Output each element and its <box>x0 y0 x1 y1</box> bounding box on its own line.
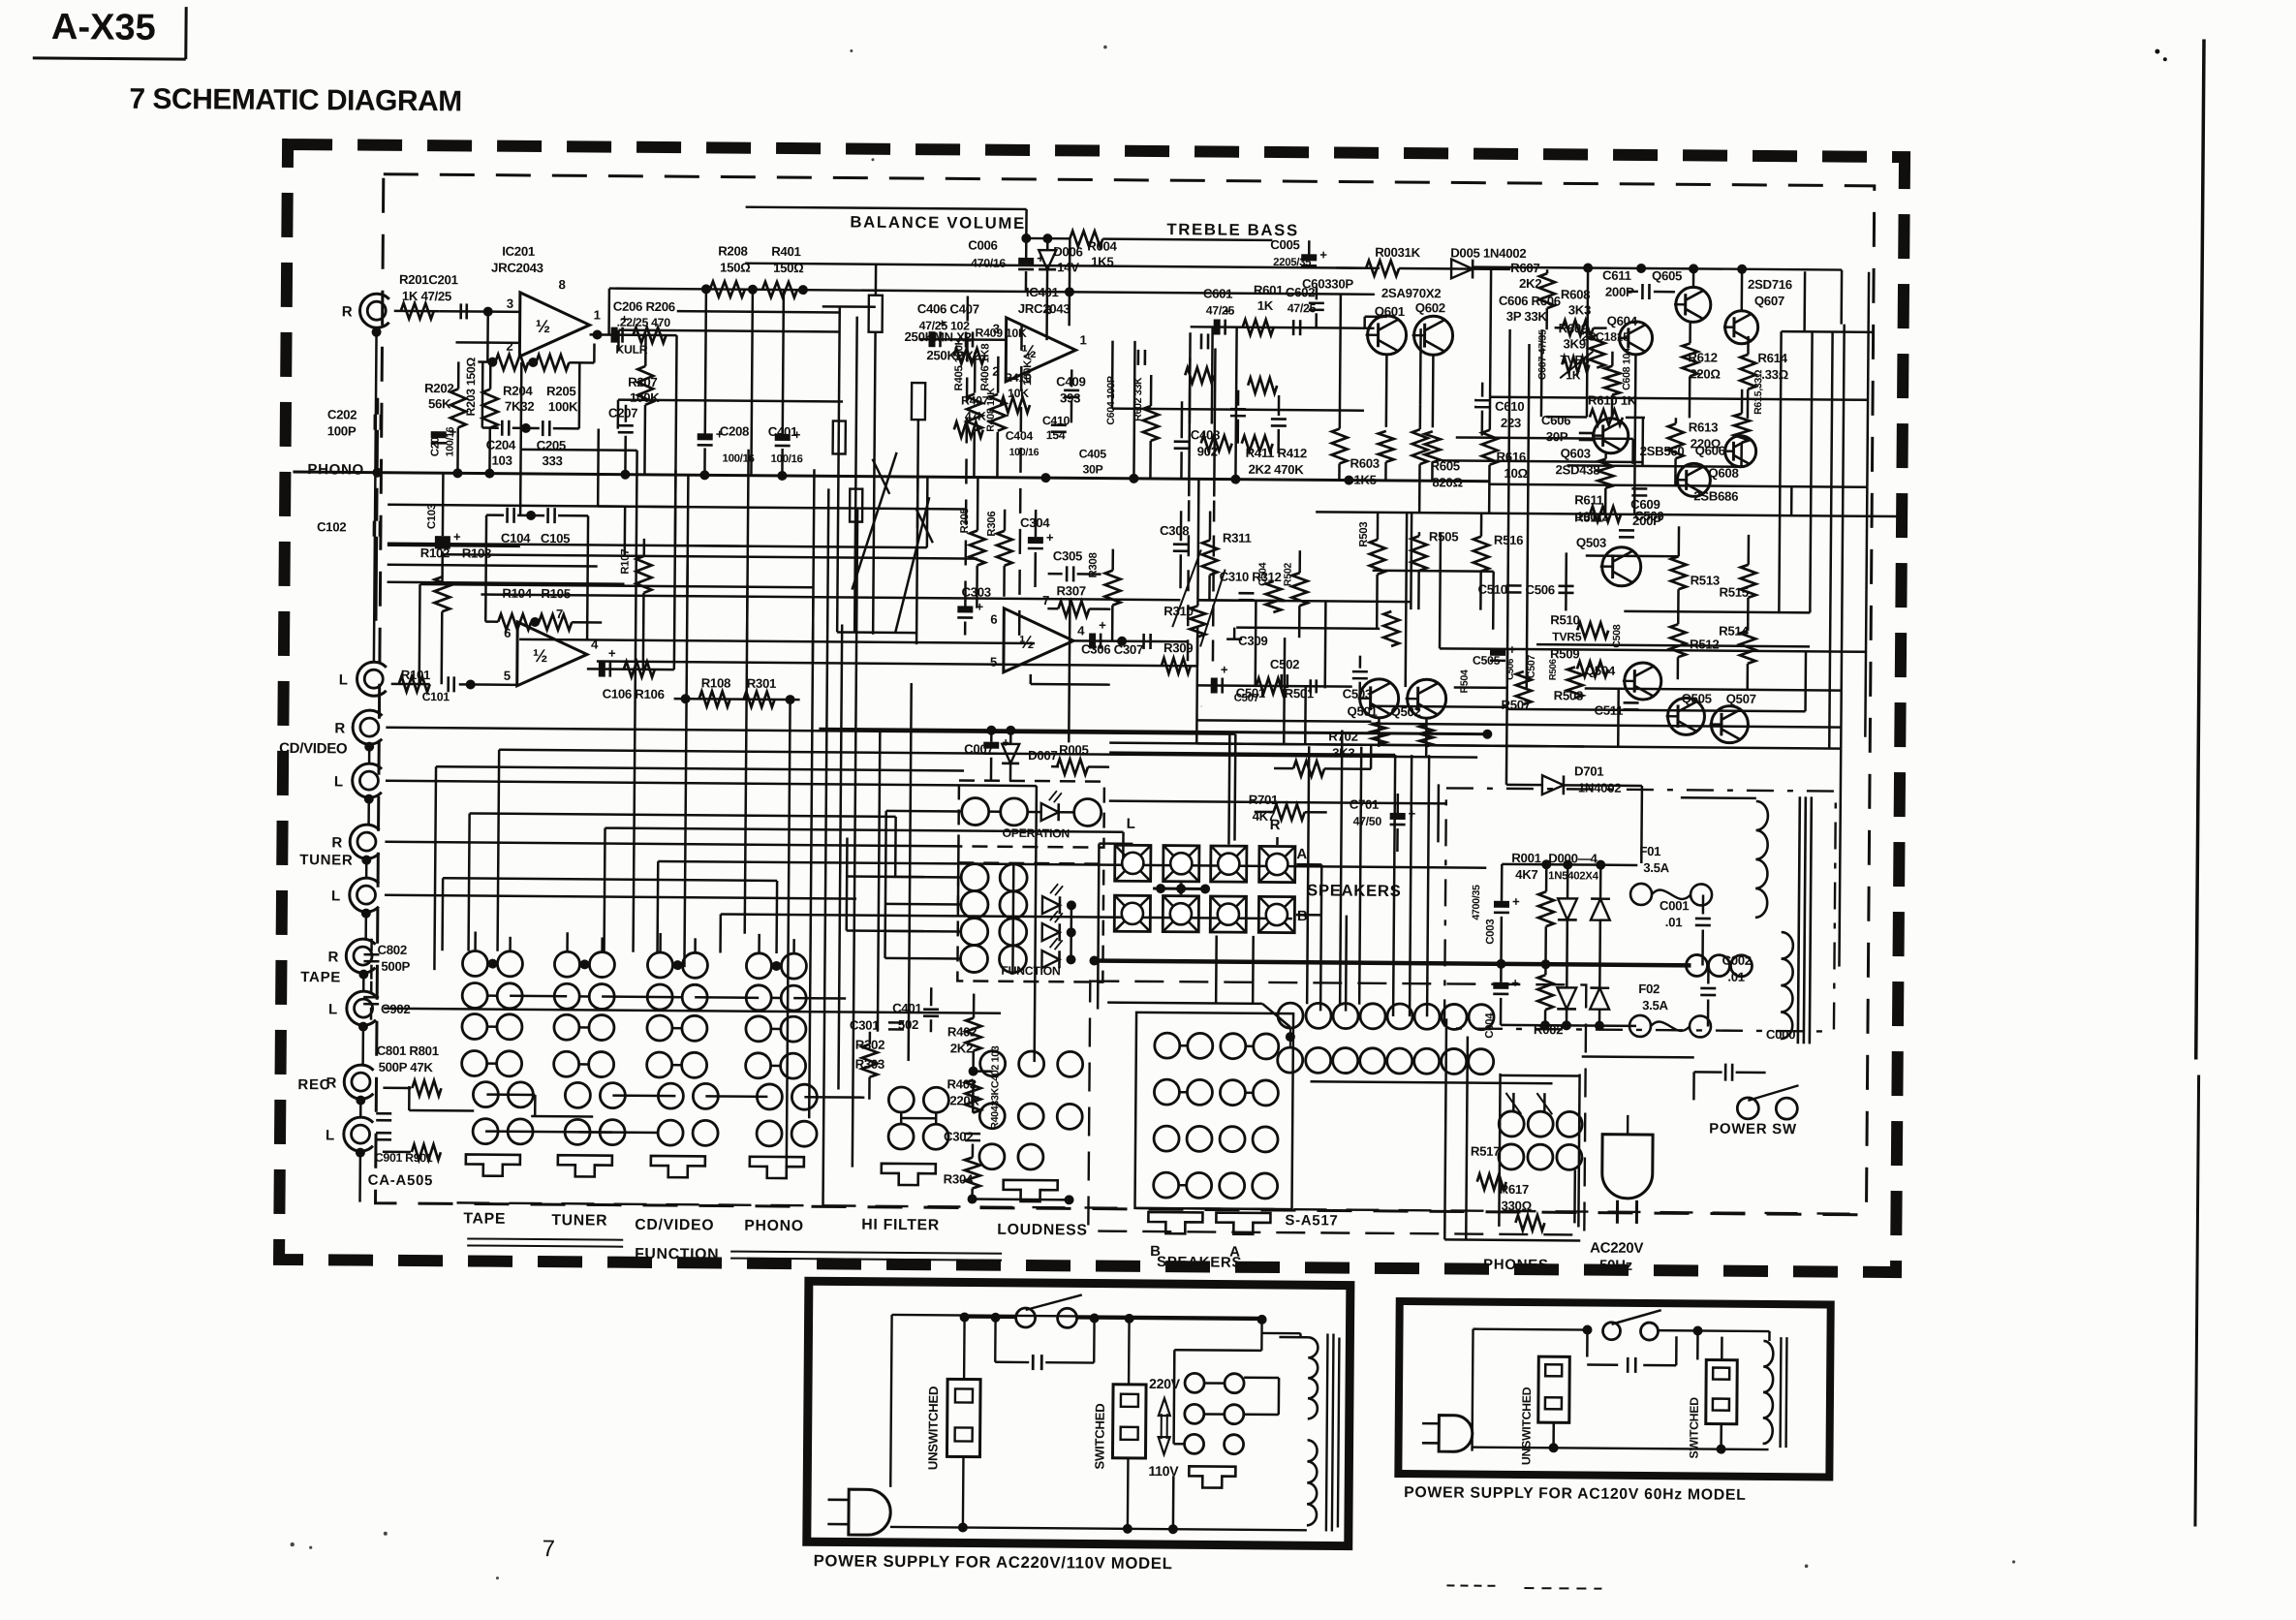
svg-text:R: R <box>327 949 338 965</box>
svg-text:R0031K: R0031K <box>1375 245 1420 260</box>
svg-text:C611: C611 <box>1602 268 1631 283</box>
svg-text:L: L <box>331 888 340 904</box>
svg-text:C509: C509 <box>1634 509 1663 523</box>
svg-text:R614: R614 <box>1757 351 1787 365</box>
svg-text:C802: C802 <box>378 943 407 957</box>
svg-text:1: 1 <box>1079 332 1086 347</box>
svg-text:30P: 30P <box>1546 429 1568 444</box>
svg-text:C202: C202 <box>327 407 357 421</box>
svg-text:POWER SUPPLY FOR AC220V/110: POWER SUPPLY FOR AC220V/110V MODEL <box>814 1551 1173 1573</box>
svg-text:C608 104: C608 104 <box>1621 348 1632 390</box>
svg-text:R615,33Ω: R615,33Ω <box>1753 369 1764 415</box>
svg-text:Q507: Q507 <box>1726 692 1756 706</box>
svg-text:C006: C006 <box>968 237 997 252</box>
svg-text:6: 6 <box>990 612 997 627</box>
svg-text:C101: C101 <box>422 690 450 703</box>
svg-text:R101: R101 <box>401 668 430 682</box>
svg-text:UNSWITCHED: UNSWITCHED <box>925 1386 941 1471</box>
svg-text:C102: C102 <box>317 519 346 534</box>
svg-text:R405 100K: R405 100K <box>953 336 965 390</box>
svg-text:POWER SW: POWER SW <box>1709 1121 1797 1138</box>
svg-text:C401: C401 <box>892 1001 921 1015</box>
svg-text:+: + <box>1099 618 1106 633</box>
svg-text:2SD716: 2SD716 <box>1748 277 1792 292</box>
svg-text:502: 502 <box>898 1017 918 1032</box>
svg-text:R701: R701 <box>1249 793 1278 807</box>
svg-text:3.5A: 3.5A <box>1643 860 1670 875</box>
svg-text:R409 10K: R409 10K <box>976 327 1028 340</box>
svg-text:R105: R105 <box>541 586 570 601</box>
svg-text:2SB686: 2SB686 <box>1693 488 1738 503</box>
svg-text:10K: 10K <box>1008 387 1029 400</box>
svg-text:.33Ω: .33Ω <box>1761 367 1789 382</box>
svg-text:R005: R005 <box>1059 742 1088 757</box>
svg-text:470/16: 470/16 <box>971 257 1006 270</box>
svg-text:+: + <box>1221 663 1228 677</box>
svg-text:14V: 14V <box>1057 260 1079 274</box>
svg-text:L: L <box>1127 816 1135 832</box>
svg-text:+: + <box>453 529 461 544</box>
svg-text:OPERATION: OPERATION <box>1002 826 1070 841</box>
svg-text:100/16: 100/16 <box>1009 447 1039 458</box>
svg-text:A: A <box>1296 846 1307 862</box>
svg-text:LOUDNESS: LOUDNESS <box>997 1222 1088 1239</box>
svg-text:330Ω: 330Ω <box>1501 1199 1532 1213</box>
svg-text:HI FILTER: HI FILTER <box>861 1217 940 1234</box>
svg-text:IC201: IC201 <box>502 244 535 259</box>
svg-text:POWER SUPPLY FOR AC120V 60: POWER SUPPLY FOR AC120V 60Hz MODEL <box>1404 1484 1746 1504</box>
svg-text:TUNER: TUNER <box>299 852 353 868</box>
svg-text:333: 333 <box>542 453 562 468</box>
svg-text:R: R <box>1270 817 1281 833</box>
svg-text:½: ½ <box>1019 632 1034 652</box>
svg-text:C801 R801: C801 R801 <box>377 1044 439 1059</box>
svg-text:+: + <box>716 426 724 441</box>
svg-text:+: + <box>1224 304 1231 319</box>
svg-text:R603: R603 <box>1350 456 1379 471</box>
svg-text:KULR: KULR <box>615 343 647 357</box>
svg-text:C204: C204 <box>486 438 516 452</box>
svg-text:R: R <box>334 720 345 736</box>
svg-text:C005: C005 <box>1270 237 1299 252</box>
svg-text:47/50: 47/50 <box>1353 815 1382 828</box>
svg-text:Q605: Q605 <box>1652 268 1682 283</box>
svg-text:R305: R305 <box>959 507 971 533</box>
svg-text:820Ω: 820Ω <box>1432 475 1463 489</box>
svg-text:Q503: Q503 <box>1576 535 1606 549</box>
svg-text:150Ω: 150Ω <box>720 260 751 274</box>
svg-text:C301: C301 <box>850 1018 879 1033</box>
svg-text:+: + <box>939 316 946 330</box>
svg-text:CD/VIDEO: CD/VIDEO <box>279 740 348 758</box>
svg-text:R506: R506 <box>1548 658 1559 680</box>
svg-text:R208: R208 <box>718 243 747 258</box>
svg-text:B: B <box>1150 1243 1161 1260</box>
svg-text:C901 R901: C901 R901 <box>375 1151 433 1165</box>
svg-text:500P 47K: 500P 47K <box>379 1060 434 1075</box>
svg-text:C308: C308 <box>1160 523 1189 538</box>
svg-text:100K: 100K <box>548 399 578 414</box>
svg-text:AC220V: AC220V <box>1590 1240 1643 1257</box>
svg-text:56K: 56K <box>428 396 451 411</box>
svg-text:C506: C506 <box>1525 582 1554 597</box>
svg-text:IC401: IC401 <box>1026 285 1059 299</box>
svg-text:TAPE: TAPE <box>463 1210 506 1227</box>
svg-text:S-A517: S-A517 <box>1285 1212 1338 1229</box>
svg-text:7: 7 <box>1042 593 1049 607</box>
svg-text:.01: .01 <box>1665 915 1683 929</box>
svg-text:C000: C000 <box>1766 1027 1795 1042</box>
svg-text:C405: C405 <box>1079 447 1107 460</box>
svg-text:R201C201: R201C201 <box>399 272 458 287</box>
svg-text:C001: C001 <box>1660 898 1689 913</box>
svg-text:R202: R202 <box>424 381 453 395</box>
svg-text:R609: R609 <box>1559 321 1588 335</box>
svg-text:Q607: Q607 <box>1754 294 1784 308</box>
svg-text:L: L <box>326 1127 334 1143</box>
svg-text:R205: R205 <box>546 384 575 398</box>
svg-text:C606: C606 <box>1541 413 1570 427</box>
svg-text:100/16: 100/16 <box>771 453 803 465</box>
svg-text:1K 47/25: 1K 47/25 <box>402 289 451 303</box>
svg-text:UNSWITCHED: UNSWITCHED <box>1519 1386 1534 1465</box>
svg-text:C601: C601 <box>1203 286 1232 300</box>
svg-text:R505: R505 <box>1429 529 1458 544</box>
svg-text:L: L <box>328 1001 337 1017</box>
svg-text:R406 1K8: R406 1K8 <box>979 344 991 391</box>
svg-text:C103: C103 <box>426 504 438 529</box>
svg-text:Q606: Q606 <box>1695 443 1725 457</box>
svg-text:103: 103 <box>491 453 512 468</box>
svg-text:3: 3 <box>507 296 513 311</box>
svg-text:Q602: Q602 <box>1415 300 1445 315</box>
svg-text:30P: 30P <box>1082 462 1102 476</box>
svg-text:Q504: Q504 <box>1585 664 1616 678</box>
svg-text:R102: R102 <box>420 545 450 560</box>
svg-text:4K7: 4K7 <box>1515 867 1537 882</box>
svg-text:F02: F02 <box>1638 981 1660 996</box>
svg-text:C003: C003 <box>1485 919 1497 945</box>
svg-text:C305: C305 <box>1053 548 1082 563</box>
svg-text:½: ½ <box>536 316 550 336</box>
svg-text:8: 8 <box>558 277 565 292</box>
svg-text:C902: C902 <box>381 1002 410 1016</box>
svg-text:R513: R513 <box>1691 573 1720 587</box>
svg-text:+: + <box>1319 247 1327 262</box>
svg-text:R: R <box>331 834 342 851</box>
svg-text:BALANCE VOLUME: BALANCE VOLUME <box>850 213 1026 233</box>
svg-text:1: 1 <box>594 307 601 322</box>
svg-text:3P 33K: 3P 33K <box>1506 309 1548 324</box>
svg-text:R401: R401 <box>771 244 800 259</box>
svg-text:C606 R606: C606 R606 <box>1499 294 1561 309</box>
svg-text:FUNCTION: FUNCTION <box>635 1246 719 1263</box>
svg-text:R40433KC402 103: R40433KC402 103 <box>989 1045 1002 1130</box>
svg-text:R308: R308 <box>1088 552 1100 577</box>
svg-text:R104: R104 <box>502 586 532 601</box>
svg-text:220V: 220V <box>1149 1376 1181 1391</box>
svg-text:500P: 500P <box>381 959 410 974</box>
svg-text:154: 154 <box>1046 428 1066 442</box>
svg-text:3.5A: 3.5A <box>1642 998 1669 1012</box>
svg-text:5: 5 <box>990 655 997 670</box>
svg-text:R: R <box>342 303 353 320</box>
svg-text:3K3: 3K3 <box>1332 745 1354 760</box>
svg-text:C106 R106: C106 R106 <box>603 687 665 702</box>
svg-text:PHONO: PHONO <box>307 461 364 478</box>
svg-text:R108: R108 <box>701 675 730 690</box>
svg-text:7: 7 <box>543 1536 556 1562</box>
svg-text:A: A <box>1229 1244 1240 1261</box>
svg-text:C504: C504 <box>1257 562 1269 586</box>
svg-text:3K9: 3K9 <box>1563 336 1585 351</box>
svg-text:223: 223 <box>1501 416 1521 430</box>
svg-text:2K2 470K: 2K2 470K <box>1248 462 1304 477</box>
svg-text:C60330P: C60330P <box>1302 276 1354 291</box>
svg-text:Q603: Q603 <box>1561 446 1591 460</box>
svg-text:R601: R601 <box>1254 283 1283 297</box>
svg-text:D701: D701 <box>1574 763 1603 778</box>
svg-text:D005 1N4002: D005 1N4002 <box>1450 245 1526 261</box>
svg-text:7K32: 7K32 <box>505 399 534 414</box>
svg-text:150Ω: 150Ω <box>773 261 804 275</box>
svg-text:1N4002: 1N4002 <box>1578 780 1622 794</box>
svg-text:R517: R517 <box>1471 1144 1500 1159</box>
svg-text:TAPE: TAPE <box>300 969 341 985</box>
svg-text:PHONO: PHONO <box>744 1218 804 1234</box>
svg-text:+: + <box>1409 806 1416 821</box>
svg-text:R311: R311 <box>1223 531 1252 545</box>
svg-text:TUNER: TUNER <box>551 1212 607 1229</box>
svg-text:1N5402X4: 1N5402X4 <box>1548 870 1598 882</box>
svg-text:C701: C701 <box>1350 797 1379 812</box>
svg-text:+: + <box>976 600 983 614</box>
svg-text:R410: R410 <box>1004 371 1032 385</box>
svg-text:+: + <box>1511 976 1519 990</box>
svg-text:+: + <box>793 427 801 442</box>
svg-text:C004: C004 <box>1484 1012 1496 1039</box>
svg-text:1K: 1K <box>1257 298 1274 313</box>
svg-text:SWITCHED: SWITCHED <box>1092 1404 1107 1470</box>
svg-text:C404: C404 <box>1006 429 1034 443</box>
svg-text:7 SCHEMATIC DIAGRAM: 7 SCHEMATIC DIAGRAM <box>129 83 462 118</box>
svg-text:R608: R608 <box>1561 287 1590 301</box>
svg-text:+: + <box>608 646 616 661</box>
svg-text:+: + <box>450 424 457 439</box>
svg-text:+: + <box>621 312 629 327</box>
svg-text:4: 4 <box>1077 623 1085 638</box>
svg-text:R307: R307 <box>1056 583 1085 598</box>
svg-text:R617: R617 <box>1500 1182 1529 1197</box>
svg-text:R408 10K: R408 10K <box>985 388 997 432</box>
svg-text:C507: C507 <box>1234 693 1259 704</box>
svg-text:D007: D007 <box>1028 748 1057 763</box>
svg-text:CD/VIDEO: CD/VIDEO <box>635 1217 714 1234</box>
svg-text:R204: R204 <box>503 384 533 398</box>
svg-text:2SA970X2: 2SA970X2 <box>1381 286 1442 300</box>
svg-text:R504: R504 <box>1459 670 1471 694</box>
svg-text:½: ½ <box>533 645 547 666</box>
svg-text:C207: C207 <box>608 406 637 421</box>
svg-text:R203 150Ω: R203 150Ω <box>464 357 478 416</box>
svg-text:4700/35: 4700/35 <box>1471 885 1482 920</box>
svg-text:+: + <box>1002 735 1009 750</box>
svg-text:C309: C309 <box>1238 634 1267 648</box>
svg-text:C406 C407: C406 C407 <box>917 301 979 317</box>
svg-text:JRC2043: JRC2043 <box>491 261 543 275</box>
svg-text:1K5: 1K5 <box>1091 254 1113 268</box>
svg-text:100P: 100P <box>327 423 357 438</box>
svg-text:R510: R510 <box>1550 612 1579 627</box>
svg-text:R611: R611 <box>1574 492 1603 507</box>
svg-text:L: L <box>339 671 348 688</box>
svg-text:R503: R503 <box>1358 522 1370 547</box>
svg-text:50Hz: 50Hz <box>1599 1258 1632 1274</box>
svg-text:PHONES: PHONES <box>1483 1257 1549 1274</box>
svg-text:R607: R607 <box>1510 261 1539 275</box>
svg-text:5: 5 <box>504 669 511 683</box>
svg-text:1K5: 1K5 <box>1353 473 1376 487</box>
svg-text:B: B <box>1297 908 1308 924</box>
svg-text:C208: C208 <box>720 423 749 438</box>
svg-text:+: + <box>1512 894 1520 909</box>
svg-text:REC: REC <box>297 1076 330 1093</box>
svg-text:2: 2 <box>506 339 512 354</box>
svg-text:TVR5: TVR5 <box>1552 630 1582 643</box>
svg-text:2SB560: 2SB560 <box>1640 444 1685 458</box>
svg-text:FUNCTION: FUNCTION <box>1001 964 1061 978</box>
svg-text:CA-A505: CA-A505 <box>368 1172 434 1190</box>
svg-text:+: + <box>1046 530 1054 545</box>
svg-text:R301: R301 <box>747 676 776 691</box>
svg-text:R402: R402 <box>947 1024 977 1039</box>
svg-text:L: L <box>334 773 343 790</box>
svg-text:R411 R412: R411 R412 <box>1246 446 1307 460</box>
svg-text:A-X35: A-X35 <box>51 7 156 48</box>
svg-text:R613: R613 <box>1689 420 1718 434</box>
